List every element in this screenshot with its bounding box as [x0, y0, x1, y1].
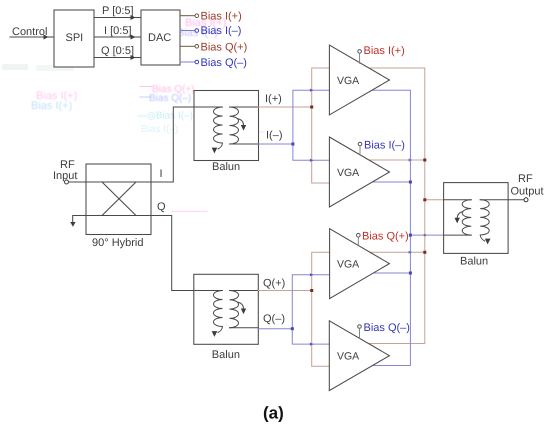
wire I(-) blue net [259, 90, 330, 160]
svg-text:Bias Q(+): Bias Q(+) [362, 231, 409, 243]
svg-text:VGA: VGA [337, 259, 359, 271]
op-amp VGA2 [329, 137, 389, 207]
svg-text:I(+): I(+) [265, 93, 282, 105]
pin Bias Q(&#8211;) out [180, 61, 195, 63]
svg-text:Control: Control [12, 26, 47, 38]
svg-text:VGA: VGA [337, 351, 359, 363]
svg-text:RF: RF [518, 173, 533, 185]
junction tan rail dots [423, 159, 426, 162]
junction I(+) [310, 106, 313, 109]
wire P[0:5] [94, 17, 135, 19]
svg-text:Bias Q(–): Bias Q(–) [149, 93, 191, 104]
svg-text:Balun: Balun [212, 349, 240, 361]
wire I to balun1 [151, 107, 194, 182]
svg-text:Bias Q(+): Bias Q(+) [201, 41, 248, 53]
port RF Output [508, 199, 524, 201]
svg-text:Bias I(+): Bias I(+) [201, 11, 242, 23]
hybrid 90deg U3 [86, 164, 151, 235]
pin Bias I(&#8211;) out [180, 30, 195, 32]
op-amp VGA1 [329, 45, 389, 115]
junction Q(-) [291, 327, 294, 330]
svg-text:Balun: Balun [460, 256, 488, 268]
ghost pink bits near balun1 [245, 131, 264, 133]
ground [73, 216, 86, 222]
svg-text:Q [0:5]: Q [0:5] [101, 45, 134, 57]
svg-text:90° Hybrid: 90° Hybrid [92, 237, 143, 249]
ghost artifact texts [31, 17, 226, 112]
svg-text:Bias I(+): Bias I(+) [364, 45, 405, 57]
svg-text:Balun: Balun [212, 161, 240, 173]
svg-text:I(–): I(–) [266, 130, 283, 142]
svg-text:Output: Output [511, 186, 544, 198]
ghost smudges top-left [2, 64, 193, 135]
op-amp VGA3 [330, 229, 390, 299]
junction I(-) [291, 143, 294, 146]
wire Q(+) tan net [258, 252, 329, 366]
svg-text:Bias Q(–): Bias Q(–) [201, 57, 247, 69]
svg-text:Bias Q(–): Bias Q(–) [364, 322, 410, 334]
junction crossing markers on rails [409, 159, 413, 254]
svg-text:—◎Bias I(–): —◎Bias I(–) [137, 111, 193, 122]
junction blue rail dots [409, 181, 412, 184]
svg-text:(a): (a) [263, 404, 284, 423]
pin Bias I(+) out [180, 15, 195, 17]
DAC U2 [141, 10, 180, 65]
wire Q to balun2 [151, 216, 194, 291]
svg-text:Bias I(–): Bias I(–) [201, 25, 242, 37]
SPI U1 [54, 10, 94, 67]
transformer balun B3 [444, 183, 509, 254]
svg-text:Bias I(–): Bias I(–) [141, 124, 178, 135]
pin Bias Q(+) out [180, 45, 195, 47]
svg-text:Q(+): Q(+) [263, 278, 285, 290]
ghost pink line near Q corner [172, 210, 207, 212]
wire Q(-) blue net [258, 275, 329, 344]
op-amp VGA4 [329, 321, 389, 391]
wire blue rail [372, 90, 443, 365]
wire I(+) tan net [259, 68, 330, 183]
wire Q[0:5] [94, 57, 135, 59]
junction arrows on blue crossing [310, 273, 314, 346]
svg-text:Bias I(–): Bias I(–) [364, 140, 405, 152]
svg-text:P [0:5]: P [0:5] [102, 5, 134, 17]
wire tan rail [368, 68, 443, 344]
transformer balun B2 [194, 274, 258, 344]
wire I[0:5] [94, 36, 135, 38]
transformer balun B1 [194, 91, 259, 161]
junction arrows on blue crossing [310, 89, 314, 162]
svg-text:SPI: SPI [66, 32, 84, 44]
wire control [10, 36, 48, 38]
junction Q(+) [310, 289, 313, 292]
svg-text:I: I [160, 168, 163, 180]
svg-text:Q(–): Q(–) [263, 313, 285, 325]
svg-text:Q: Q [157, 201, 166, 213]
svg-text:I [0:5]: I [0:5] [104, 25, 132, 37]
svg-text:VGA: VGA [337, 75, 359, 87]
svg-text:VGA: VGA [337, 167, 359, 179]
svg-text:Bias I(+): Bias I(+) [31, 100, 72, 112]
svg-text:DAC: DAC [148, 32, 171, 44]
